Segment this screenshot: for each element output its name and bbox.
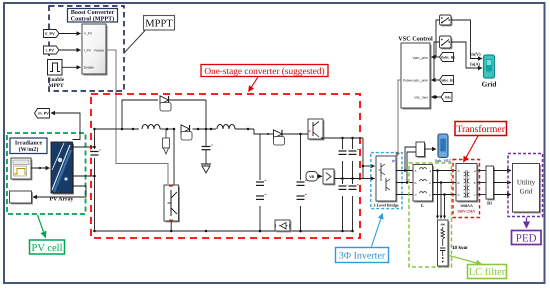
svg-text:B1: B1 <box>487 201 492 206</box>
svg-text:Enable: Enable <box>84 66 94 70</box>
svg-text:MPPT: MPPT <box>48 83 64 89</box>
svg-text:A: A <box>458 169 460 173</box>
svg-text:Iabc_B1: Iabc_B1 <box>441 78 454 82</box>
svg-text:I_PV: I_PV <box>46 48 55 52</box>
svg-text:Vabc_B1: Vabc_B1 <box>441 55 455 59</box>
svg-text:Va(V): Va(V) <box>469 52 481 57</box>
svg-text:Control (MPPT): Control (MPPT) <box>71 16 115 23</box>
svg-text:10 kvar: 10 kvar <box>452 245 468 250</box>
svg-text:P: P <box>392 160 395 164</box>
svg-text:VSC Control: VSC Control <box>398 36 433 43</box>
svg-text:V_PV: V_PV <box>45 32 55 36</box>
svg-text:Vab_VSC: Vab_VSC <box>435 159 452 163</box>
svg-text:100kVA: 100kVA <box>460 204 473 208</box>
svg-text:V_PV: V_PV <box>84 32 93 36</box>
svg-text:Utility: Utility <box>517 179 536 187</box>
svg-text:Grid: Grid <box>482 81 497 89</box>
svg-text:Vdc_mes: Vdc_mes <box>414 95 428 99</box>
svg-text:Vdc: Vdc <box>445 95 451 99</box>
svg-text:VB: VB <box>309 175 314 179</box>
svg-text:PV cell: PV cell <box>31 243 62 254</box>
svg-text:260V/25kV: 260V/25kV <box>457 210 475 214</box>
svg-text:3-Level Bridge: 3-Level Bridge <box>373 202 398 207</box>
svg-text:Transformer: Transformer <box>456 124 505 135</box>
svg-text:LC filter: LC filter <box>469 267 506 278</box>
svg-text:I_PV: I_PV <box>84 49 92 53</box>
svg-text:MPPT: MPPT <box>145 18 173 29</box>
svg-text:Ia(A): Ia(A) <box>470 62 481 67</box>
svg-text:PED: PED <box>516 233 537 245</box>
svg-text:B: B <box>458 181 460 185</box>
svg-text:Pulses: Pulses <box>403 78 413 82</box>
svg-text:3Φ Inverter: 3Φ Inverter <box>339 251 386 262</box>
svg-text:Pulses: Pulses <box>94 49 104 53</box>
svg-text:A: A <box>415 169 417 173</box>
svg-text:400: 400 <box>440 223 445 227</box>
svg-text:Grid: Grid <box>520 188 533 196</box>
svg-text:Iabc_prim: Iabc_prim <box>414 78 429 82</box>
svg-text:(W/m2): (W/m2) <box>19 146 39 153</box>
svg-text:m_PV: m_PV <box>38 112 49 116</box>
svg-text:Vabc_prim: Vabc_prim <box>412 56 428 60</box>
svg-text:B: B <box>415 181 417 185</box>
svg-text:One-stage converter (suggested: One-stage converter (suggested) <box>204 67 324 77</box>
svg-text:L: L <box>421 203 424 208</box>
svg-text:Irradiance: Irradiance <box>15 139 43 146</box>
